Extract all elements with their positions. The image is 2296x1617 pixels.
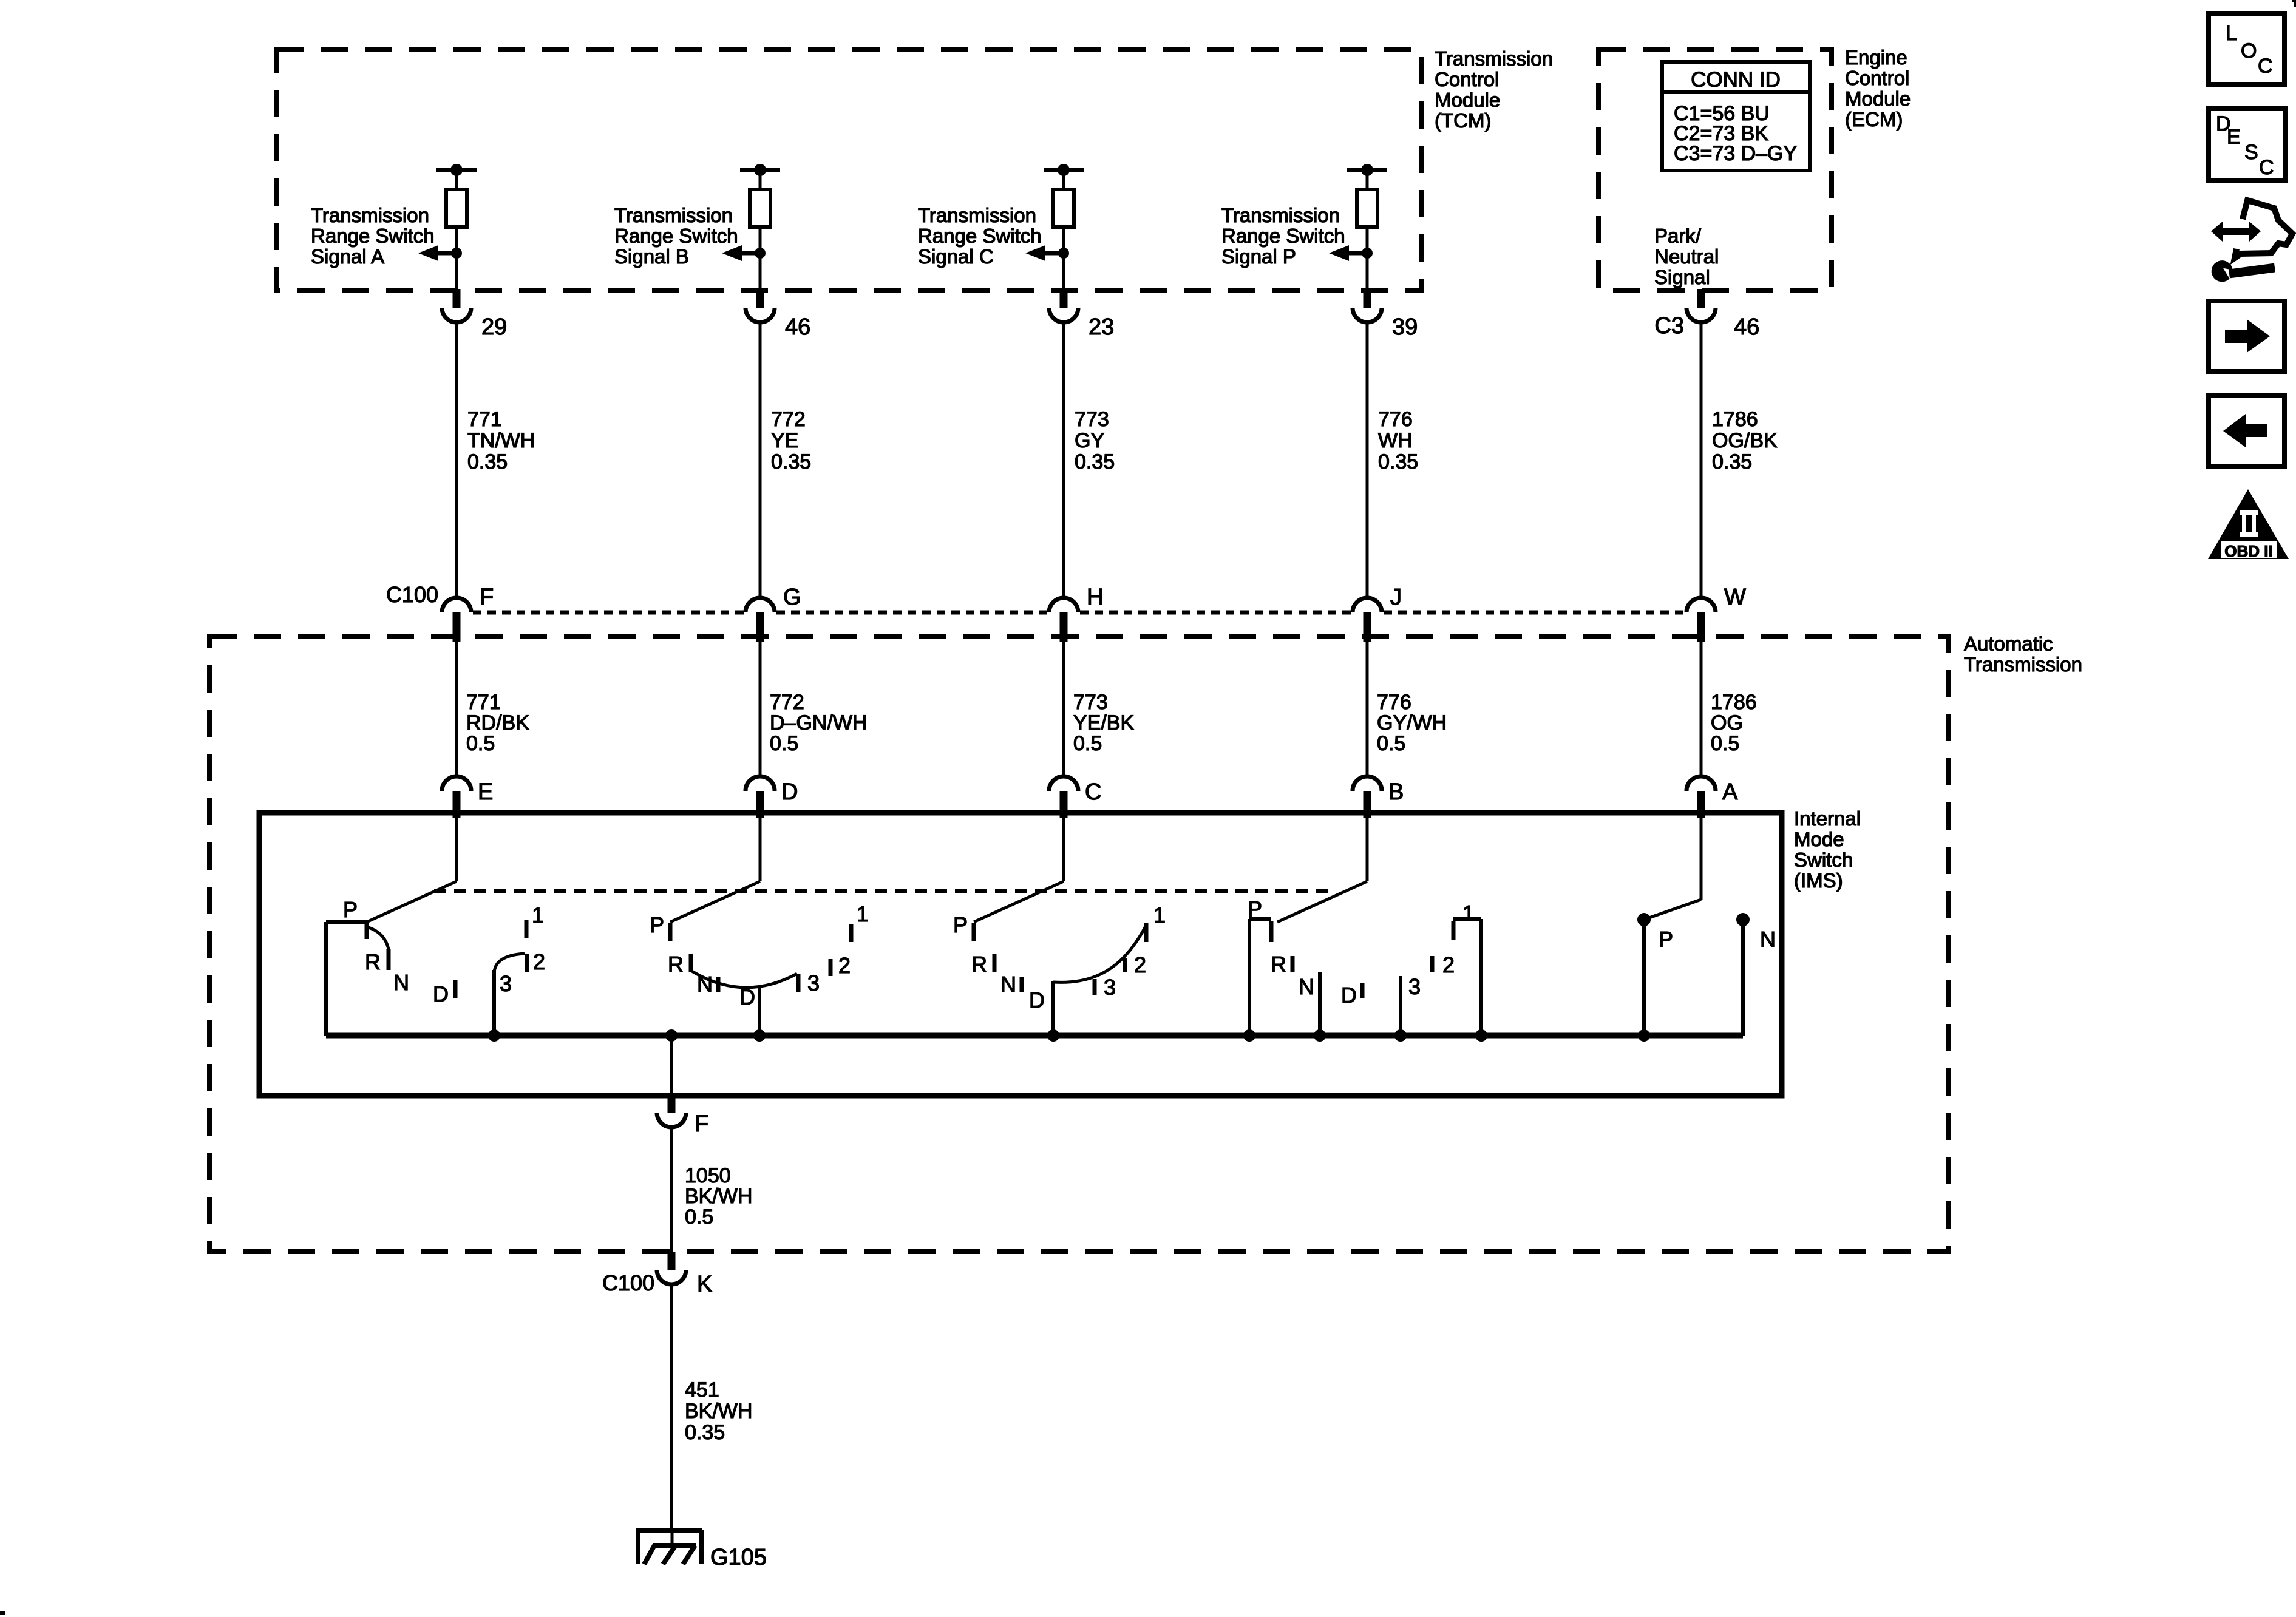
svg-text:0.5: 0.5 bbox=[1711, 732, 1739, 755]
icon OBD II triangle bbox=[2208, 489, 2289, 560]
connector pin stub branch 4 bbox=[1364, 289, 1371, 308]
svg-text:GY/WH: GY/WH bbox=[1377, 711, 1447, 734]
node junction dot branch 1 bbox=[451, 248, 462, 259]
resistor TCM pull-up branch 1 bbox=[446, 189, 467, 227]
node switch 3 terminal D bus junction bbox=[1047, 1029, 1059, 1042]
pin letter H bbox=[1087, 585, 1103, 610]
svg-text:Switch: Switch bbox=[1794, 849, 1853, 871]
switch 3 contact tick 1 bbox=[1144, 923, 1149, 942]
switch 4 label N bbox=[1299, 974, 1314, 999]
wire resistor to junction branch 3 bbox=[1062, 227, 1065, 253]
svg-text:P: P bbox=[1248, 897, 1262, 921]
switch wiper arm 1 bbox=[367, 881, 457, 922]
connector C100 interconnect dotted line bbox=[473, 611, 1685, 615]
connector C100 pin W bbox=[1686, 598, 1716, 612]
pin number 39 bbox=[1392, 314, 1418, 340]
ECM module dashed box bbox=[1598, 50, 1832, 290]
svg-text:E: E bbox=[2227, 126, 2241, 149]
svg-text:Signal B: Signal B bbox=[614, 245, 689, 268]
svg-text:3: 3 bbox=[1408, 974, 1421, 999]
svg-text:2: 2 bbox=[1134, 952, 1146, 977]
switch 4 contact tick R bbox=[1291, 956, 1295, 972]
svg-text:H: H bbox=[1087, 585, 1103, 610]
svg-text:B: B bbox=[1388, 779, 1404, 805]
svg-text:R: R bbox=[668, 952, 684, 977]
switch mechanical linkage dashed line bbox=[434, 889, 1336, 893]
svg-text:Engine: Engine bbox=[1845, 46, 1907, 69]
svg-text:K: K bbox=[697, 1272, 712, 1297]
switch 4 contact tick 2 bbox=[1430, 956, 1435, 972]
switch 4 terminal 1 bracket wire to bus bbox=[1453, 919, 1481, 1036]
icon hand with wrench bbox=[2211, 200, 2292, 282]
svg-text:P: P bbox=[650, 912, 664, 937]
switch 4 label P bbox=[1248, 897, 1262, 921]
connector pin stub branch 3 bbox=[1060, 289, 1068, 308]
svg-text:W: W bbox=[1724, 585, 1746, 610]
svg-text:D: D bbox=[739, 985, 755, 1009]
svg-text:P: P bbox=[1659, 927, 1673, 952]
connector stub C100 pin G bbox=[756, 612, 764, 642]
pin number 23 bbox=[1089, 314, 1114, 340]
svg-text:0.5: 0.5 bbox=[1377, 732, 1405, 755]
Automatic Transmission label bbox=[1964, 632, 2082, 676]
pin letter K bbox=[697, 1272, 712, 1297]
svg-text:0.35: 0.35 bbox=[771, 450, 811, 473]
label Transmission Range Switch Signal C bbox=[918, 204, 1042, 268]
icon back arrow box bbox=[2209, 395, 2284, 466]
switch 3 label P bbox=[953, 912, 968, 937]
connector stub IMS pin C bbox=[1060, 791, 1068, 818]
switch 2 label 1 bbox=[857, 901, 869, 926]
node switch 5 terminal P bus junction bbox=[1638, 1029, 1650, 1042]
CONN ID table bbox=[1662, 62, 1810, 171]
svg-text:C: C bbox=[2258, 55, 2273, 78]
switch 4 label D bbox=[1341, 983, 1357, 1008]
node junction dot branch 4 bbox=[1362, 248, 1373, 259]
switch 1 label 3 bbox=[500, 971, 512, 996]
switch 1 label P bbox=[343, 897, 358, 922]
switch wiper arm 4 bbox=[1277, 881, 1367, 922]
svg-text:3: 3 bbox=[807, 971, 820, 995]
switch 1 contact tick 2 bbox=[525, 954, 529, 972]
wire junction to TCM pin branch 2 bbox=[759, 253, 762, 290]
icon DESC box bbox=[2209, 109, 2285, 180]
wire 776 branch 4 bbox=[1366, 322, 1369, 598]
switch 3 label R bbox=[971, 952, 987, 977]
wire crossbar to resistor branch 3 bbox=[1062, 170, 1065, 189]
svg-text:773: 773 bbox=[1073, 691, 1108, 714]
icon LOC box bbox=[2209, 13, 2284, 84]
pin letter D bbox=[781, 779, 798, 805]
wire label 772 D–GN/WH 0.5 bbox=[770, 691, 868, 755]
svg-text:N: N bbox=[697, 972, 713, 997]
svg-text:TN/WH: TN/WH bbox=[467, 429, 535, 452]
svg-text:Range Switch: Range Switch bbox=[1221, 225, 1345, 247]
TCM internal pull-up crossbar branch 4 bbox=[1347, 168, 1387, 172]
node junction dot branch 3 bbox=[1058, 248, 1069, 259]
svg-text:0.5: 0.5 bbox=[1073, 732, 1102, 755]
switch 5 terminal P wire to bus bbox=[1642, 920, 1646, 1036]
wire 772 branch 2 bbox=[759, 322, 762, 598]
svg-text:771: 771 bbox=[467, 408, 502, 431]
pin connector label C3 bbox=[1654, 313, 1684, 339]
svg-text:1: 1 bbox=[857, 901, 869, 926]
svg-text:1786: 1786 bbox=[1711, 691, 1757, 714]
svg-text:YE: YE bbox=[771, 429, 798, 452]
wire crossbar to resistor branch 1 bbox=[455, 170, 458, 189]
svg-text:C3=73 D–GY: C3=73 D–GY bbox=[1674, 142, 1797, 165]
svg-text:S: S bbox=[2244, 141, 2258, 164]
TCM label bbox=[1435, 47, 1553, 132]
wire junction to TCM pin branch 4 bbox=[1366, 253, 1369, 290]
svg-text:2: 2 bbox=[1442, 952, 1455, 977]
svg-text:772: 772 bbox=[770, 691, 804, 714]
svg-text:29: 29 bbox=[481, 314, 507, 340]
svg-text:Transmission: Transmission bbox=[1435, 47, 1553, 70]
node junction dot branch 2 bbox=[755, 248, 766, 259]
svg-text:R: R bbox=[971, 952, 987, 977]
svg-text:Signal: Signal bbox=[1654, 266, 1710, 288]
signal arrow branch 4 bbox=[1329, 245, 1367, 261]
svg-text:OBD II: OBD II bbox=[2224, 542, 2272, 560]
node crossbar dot branch 3 bbox=[1058, 164, 1070, 176]
svg-text:GY: GY bbox=[1075, 429, 1104, 452]
connector stub IMS pin A bbox=[1697, 791, 1705, 818]
label Transmission Range Switch Signal P bbox=[1221, 204, 1345, 268]
resistor TCM pull-up branch 3 bbox=[1053, 189, 1074, 227]
svg-text:C3: C3 bbox=[1654, 313, 1684, 339]
connector IMS pin B bbox=[1353, 776, 1382, 791]
svg-text:J: J bbox=[1390, 585, 1402, 610]
connector stub C100 pin W bbox=[1697, 612, 1705, 642]
switch 2 wiper arc R-3 bbox=[691, 971, 797, 988]
svg-text:1050: 1050 bbox=[685, 1164, 731, 1187]
svg-text:451: 451 bbox=[685, 1378, 719, 1402]
connector IMS pin D bbox=[746, 776, 775, 791]
svg-text:E: E bbox=[478, 779, 493, 805]
pin letter F bbox=[695, 1111, 708, 1137]
connector C100 pin K bbox=[657, 1270, 686, 1284]
TCM internal pull-up crossbar branch 1 bbox=[436, 168, 477, 172]
switch 2 terminal D wire to bus bbox=[758, 986, 761, 1036]
svg-text:L: L bbox=[2226, 22, 2237, 45]
wire crossbar to resistor branch 2 bbox=[759, 170, 762, 189]
wire crossbar to resistor branch 4 bbox=[1366, 170, 1369, 189]
ground label G105 bbox=[710, 1545, 767, 1570]
node crossbar dot branch 2 bbox=[754, 164, 766, 176]
svg-text:Module: Module bbox=[1435, 89, 1500, 111]
svg-text:(IMS): (IMS) bbox=[1794, 869, 1843, 892]
svg-text:0.5: 0.5 bbox=[466, 732, 495, 755]
signal arrow branch 2 bbox=[722, 245, 760, 261]
svg-text:Transmission: Transmission bbox=[1964, 653, 2082, 676]
switch 2 label R bbox=[668, 952, 684, 977]
connector pin stub branch 2 bbox=[756, 289, 764, 308]
switch 2 contact tick P bbox=[668, 923, 673, 941]
wire 772 D–GN/WH segment 2 bbox=[759, 636, 762, 778]
wire resistor to junction branch 2 bbox=[759, 227, 762, 253]
wire 776 GY/WH segment 4 bbox=[1366, 636, 1369, 778]
wire label 776 GY/WH 0.5 bbox=[1377, 691, 1447, 755]
svg-text:0.35: 0.35 bbox=[1712, 450, 1752, 473]
wire resistor to junction branch 4 bbox=[1366, 227, 1369, 253]
wire label 771 TN/WH 0.35 bbox=[467, 408, 535, 473]
switch 1 contact tick D bbox=[453, 980, 458, 998]
svg-text:C: C bbox=[2259, 156, 2274, 179]
switch 1 contact tick R bbox=[387, 949, 391, 970]
connector C100 pin F bbox=[442, 598, 471, 612]
connector stub IMS pin E bbox=[453, 791, 461, 818]
connector stub C100 pin H bbox=[1060, 612, 1068, 642]
switch 3 contact tick N bbox=[1020, 977, 1024, 992]
wire IMS internal segment 3 bbox=[1062, 818, 1065, 881]
switch 2 contact tick 1 bbox=[849, 924, 854, 942]
svg-text:Range Switch: Range Switch bbox=[614, 225, 738, 247]
connector IMS pin C bbox=[1049, 776, 1078, 791]
svg-text:F: F bbox=[695, 1111, 708, 1137]
switch 4 contact tick P bbox=[1269, 921, 1274, 942]
svg-text:RD/BK: RD/BK bbox=[466, 711, 529, 734]
svg-text:Module: Module bbox=[1845, 87, 1911, 110]
svg-text:A: A bbox=[1722, 779, 1738, 805]
resistor TCM pull-up branch 4 bbox=[1357, 189, 1377, 227]
connector IMS pin A bbox=[1686, 776, 1716, 791]
connector label C100 bbox=[386, 582, 438, 607]
svg-text:776: 776 bbox=[1377, 691, 1411, 714]
svg-text:C100: C100 bbox=[386, 582, 438, 607]
svg-text:Automatic: Automatic bbox=[1964, 632, 2053, 655]
wire 1786 OG segment 5 bbox=[1700, 636, 1703, 778]
switch 3 terminal D wire to bus bbox=[1051, 981, 1055, 1036]
svg-text:Signal P: Signal P bbox=[1221, 245, 1296, 268]
switch 4 label 3 bbox=[1408, 974, 1421, 999]
pin letter C bbox=[1085, 779, 1101, 805]
svg-text:D: D bbox=[1029, 988, 1045, 1012]
connector TCM pin 23 bbox=[1049, 308, 1078, 322]
svg-text:3: 3 bbox=[1104, 975, 1116, 1000]
pin number 46 bbox=[785, 314, 810, 340]
switch 2 label 3 bbox=[807, 971, 820, 995]
switch 3 label 3 bbox=[1104, 975, 1116, 1000]
svg-text:772: 772 bbox=[771, 408, 806, 431]
svg-text:F: F bbox=[480, 585, 494, 610]
svg-text:(TCM): (TCM) bbox=[1435, 109, 1491, 132]
svg-text:1786: 1786 bbox=[1712, 408, 1758, 431]
wire IMS internal segment 4 bbox=[1366, 818, 1369, 881]
connector pin stub branch 1 bbox=[453, 289, 461, 308]
TCM internal pull-up crossbar branch 3 bbox=[1044, 168, 1084, 172]
svg-text:G105: G105 bbox=[710, 1545, 767, 1570]
wire label 772 YE 0.35 bbox=[771, 408, 811, 473]
wire 773 YE/BK segment 3 bbox=[1062, 636, 1065, 778]
svg-text:Park/: Park/ bbox=[1654, 225, 1702, 247]
wire label 776 WH 0.35 bbox=[1378, 408, 1418, 473]
TCM internal pull-up crossbar branch 2 bbox=[740, 168, 780, 172]
switch 2 label N bbox=[697, 972, 713, 997]
switch 4 contact tick D bbox=[1360, 983, 1365, 998]
connector pin stub ECM C3 bbox=[1697, 289, 1705, 308]
svg-text:Signal A: Signal A bbox=[311, 245, 384, 268]
resistor TCM pull-up branch 2 bbox=[750, 189, 770, 227]
switch 2 label P bbox=[650, 912, 664, 937]
switch 3 label D bbox=[1029, 988, 1045, 1012]
connector stub IMS pin B bbox=[1364, 791, 1371, 818]
Internal Mode Switch label bbox=[1794, 807, 1861, 892]
svg-text:Signal C: Signal C bbox=[918, 245, 994, 268]
svg-text:Transmission: Transmission bbox=[1221, 204, 1340, 226]
wire IMS internal segment 1 bbox=[455, 818, 458, 881]
svg-text:N: N bbox=[393, 970, 409, 995]
switch 1 label 2 bbox=[533, 949, 545, 974]
switch 1 terminal P bracket bbox=[326, 922, 367, 1036]
switch 3 contact tick 3 bbox=[1093, 979, 1097, 995]
page corner mark top right bbox=[2292, 1, 2295, 7]
svg-text:O: O bbox=[2241, 39, 2257, 63]
node switch 4 terminal N bus junction bbox=[1314, 1029, 1326, 1042]
wire label 773 GY 0.35 bbox=[1075, 408, 1115, 473]
switch 2 contact tick 3 bbox=[796, 974, 801, 992]
svg-text:1: 1 bbox=[1462, 901, 1475, 926]
label Transmission Range Switch Signal B bbox=[614, 204, 738, 268]
svg-text:D–GN/WH: D–GN/WH bbox=[770, 711, 868, 734]
wire IMS internal segment 2 bbox=[759, 818, 762, 881]
switch 3 label 2 bbox=[1134, 952, 1146, 977]
wire label 771 RD/BK 0.5 bbox=[466, 691, 529, 755]
switch 1 wiper arc 3-2 bbox=[494, 954, 525, 972]
svg-text:WH: WH bbox=[1378, 429, 1413, 452]
node switch 4 terminal 3 bus junction bbox=[1394, 1029, 1407, 1042]
node switch 2 terminal D bus junction bbox=[753, 1029, 766, 1042]
switch 1 contact tick 1 bbox=[525, 920, 529, 938]
switch 4 label 1 bbox=[1462, 901, 1475, 926]
svg-text:Control: Control bbox=[1435, 68, 1499, 90]
svg-text:46: 46 bbox=[1734, 314, 1759, 340]
svg-text:D: D bbox=[433, 981, 449, 1006]
svg-text:23: 23 bbox=[1089, 314, 1114, 340]
svg-text:2: 2 bbox=[838, 953, 851, 978]
svg-text:776: 776 bbox=[1378, 408, 1413, 431]
wire resistor to junction branch 1 bbox=[455, 227, 458, 253]
svg-text:Mode: Mode bbox=[1794, 828, 1844, 850]
connector IMS pin F bbox=[657, 1113, 686, 1127]
svg-text:N: N bbox=[1000, 972, 1016, 997]
svg-text:(ECM): (ECM) bbox=[1845, 108, 1903, 131]
switch 1 label 1 bbox=[532, 903, 544, 927]
switch wiper arm 2 bbox=[670, 881, 760, 922]
switch 2 label 2 bbox=[838, 953, 851, 978]
switch 5 label P bbox=[1659, 927, 1673, 952]
signal arrow branch 1 bbox=[418, 245, 457, 261]
switch 3 wiper arc D-1 bbox=[1053, 925, 1146, 982]
page corner mark bottom left bbox=[0, 1611, 5, 1615]
TCM module dashed box bbox=[276, 50, 1421, 290]
svg-text:Internal: Internal bbox=[1794, 807, 1861, 830]
switch 3 label 1 bbox=[1153, 903, 1166, 927]
switch 1 wiper arc P-R bbox=[369, 927, 389, 949]
svg-text:D: D bbox=[1341, 983, 1357, 1008]
wire label 1786 OG/BK 0.35 bbox=[1712, 408, 1778, 473]
pin letter A bbox=[1722, 779, 1738, 805]
switch 4 contact tick 1 bbox=[1452, 921, 1456, 940]
svg-text:0.35: 0.35 bbox=[1378, 450, 1418, 473]
switch 1 terminal 3 wire to bus bbox=[492, 970, 496, 1036]
switch wiper arm 3 bbox=[974, 881, 1064, 922]
node bus to output junction bbox=[665, 1029, 678, 1042]
connector stub C100 pin J bbox=[1364, 612, 1371, 642]
switch 2 label D bbox=[739, 985, 755, 1009]
wire junction to TCM pin branch 1 bbox=[455, 253, 458, 290]
switch 5 terminal N wire to bus bbox=[1741, 920, 1745, 1036]
switch 1 label D bbox=[433, 981, 449, 1006]
svg-text:46: 46 bbox=[785, 314, 810, 340]
switch 2 contact tick N bbox=[716, 977, 721, 992]
connector TCM pin 39 bbox=[1353, 308, 1382, 322]
switch 3 contact tick P bbox=[972, 923, 976, 941]
pin number 46 bbox=[1734, 314, 1759, 340]
wire 773 branch 3 bbox=[1062, 322, 1065, 598]
connector stub IMS pin F bbox=[668, 1098, 676, 1113]
wire junction to TCM pin branch 3 bbox=[1062, 253, 1065, 290]
connector ECM C3 pin 46 bbox=[1686, 308, 1716, 322]
switch 5 contact N dot bbox=[1736, 913, 1750, 926]
switch 1 label R bbox=[365, 949, 381, 974]
svg-text:0.5: 0.5 bbox=[685, 1205, 713, 1229]
pin letter F bbox=[480, 585, 494, 610]
label Transmission Range Switch Signal A bbox=[311, 204, 435, 268]
svg-text:2: 2 bbox=[533, 949, 545, 974]
svg-text:773: 773 bbox=[1075, 408, 1109, 431]
connector C100 pin G bbox=[746, 598, 775, 612]
switch 3 contact tick 2 bbox=[1123, 958, 1127, 972]
ground symbol G105 bbox=[636, 1530, 702, 1564]
svg-text:OG/BK: OG/BK bbox=[1712, 429, 1778, 452]
svg-text:G: G bbox=[783, 585, 801, 610]
wire 771 RD/BK segment 1 bbox=[455, 636, 458, 778]
switch 4 label R bbox=[1271, 952, 1286, 977]
svg-text:Transmission: Transmission bbox=[614, 204, 733, 226]
connector stub C100 pin K top bbox=[668, 1252, 676, 1270]
switch 1 contact tick P bbox=[365, 923, 369, 939]
svg-text:N: N bbox=[1299, 974, 1314, 999]
svg-text:Range Switch: Range Switch bbox=[918, 225, 1042, 247]
svg-text:Transmission: Transmission bbox=[918, 204, 1036, 226]
svg-text:C100: C100 bbox=[602, 1270, 654, 1295]
svg-text:1: 1 bbox=[532, 903, 544, 927]
wire IMS internal segment 5 bbox=[1700, 818, 1703, 900]
connector C100 pin H bbox=[1049, 598, 1078, 612]
node switch 1 terminal 3 bus junction bbox=[488, 1029, 500, 1042]
wire label 773 YE/BK 0.5 bbox=[1073, 691, 1134, 755]
svg-text:R: R bbox=[365, 949, 381, 974]
Automatic Transmission dashed box bbox=[209, 636, 1949, 1252]
svg-text:OG: OG bbox=[1711, 711, 1743, 734]
switch 4 label 2 bbox=[1442, 952, 1455, 977]
svg-text:C: C bbox=[1085, 779, 1101, 805]
connector IMS pin E bbox=[442, 776, 471, 791]
svg-text:Neutral: Neutral bbox=[1654, 245, 1719, 268]
switch 4 terminal P bracket wire to bus bbox=[1249, 919, 1271, 1036]
wire bus to IMS pin F bbox=[670, 1036, 673, 1098]
switch 4 terminal N wire to bus bbox=[1318, 972, 1322, 1036]
svg-text:YE/BK: YE/BK bbox=[1073, 711, 1134, 734]
node crossbar dot branch 4 bbox=[1361, 164, 1373, 176]
connector stub C100 pin F bbox=[453, 612, 461, 642]
connector TCM pin 29 bbox=[442, 308, 471, 322]
pin letter B bbox=[1388, 779, 1404, 805]
svg-text:BK/WH: BK/WH bbox=[685, 1185, 752, 1208]
switch 5 label N bbox=[1760, 927, 1776, 952]
wire 771 branch 1 bbox=[455, 322, 458, 598]
